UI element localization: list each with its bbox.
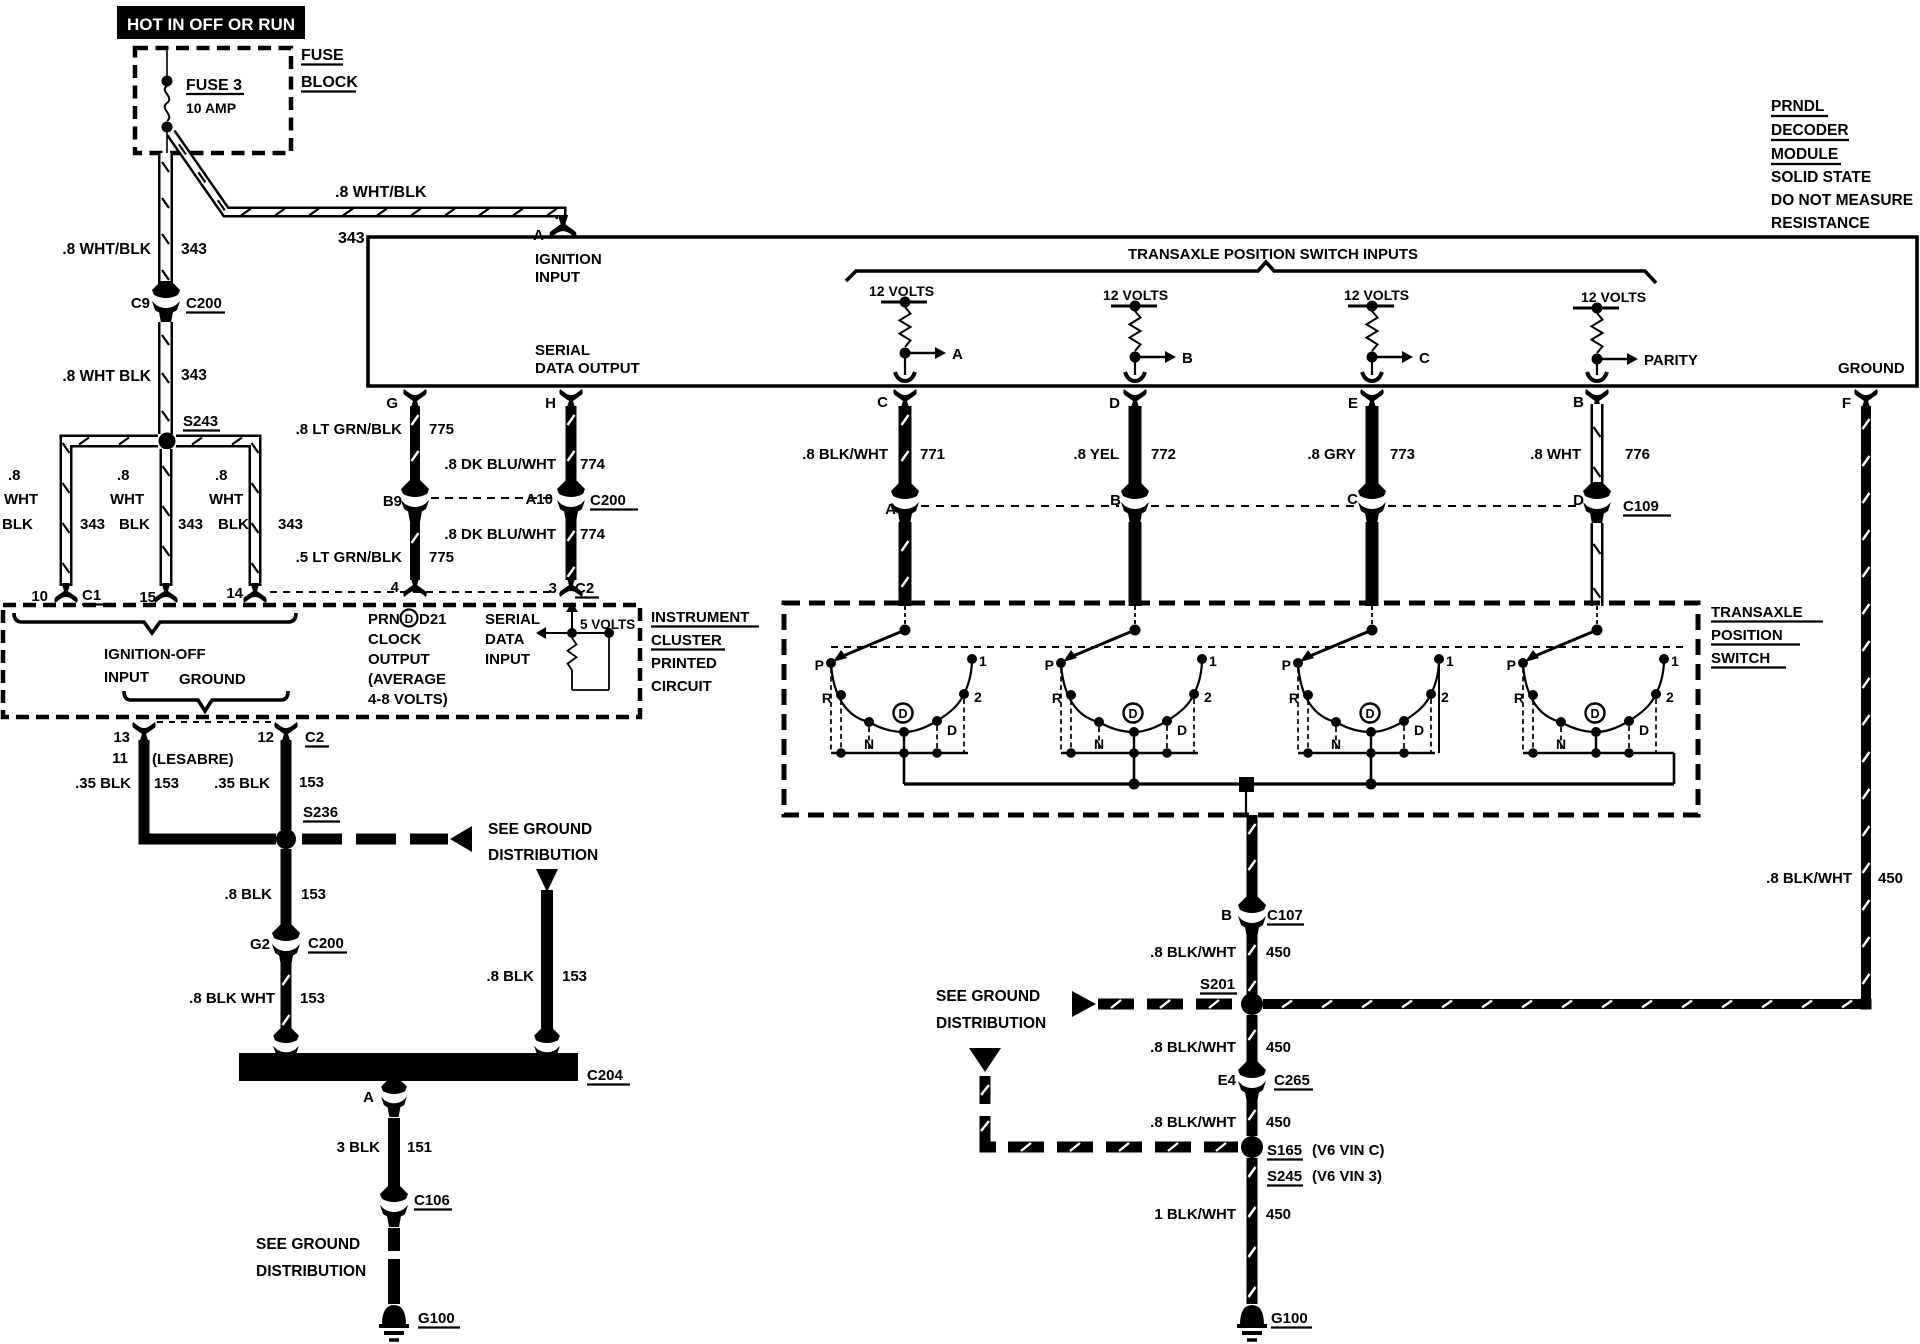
svg-text:SWITCH: SWITCH <box>1711 650 1770 667</box>
module pin H <box>545 389 583 412</box>
wire .8 WHT/BLK 343 S243 branch to cluster pin 10 <box>66 441 158 586</box>
label .8 BLK/WHT 450 (below S201) <box>1150 1039 1291 1056</box>
svg-text:(V6 VIN 3): (V6 VIN 3) <box>1312 1168 1382 1185</box>
svg-text:C1: C1 <box>82 587 101 604</box>
svg-text:3: 3 <box>549 580 557 597</box>
svg-text:IGNITION-OFF: IGNITION-OFF <box>104 646 206 663</box>
wire .8 BLK/WHT 450 C107 to S201 <box>1247 936 1258 994</box>
svg-text:.35 BLK: .35 BLK <box>75 775 131 792</box>
svg-text:10 AMP: 10 AMP <box>186 100 236 116</box>
svg-text:MODULE: MODULE <box>1771 146 1838 163</box>
svg-text:450: 450 <box>1266 1206 1291 1223</box>
wire .8 BLK/WHT 450 C265 to S165 <box>1247 1101 1258 1136</box>
svg-text:TRANSAXLE POSITION SWITCH INPU: TRANSAXLE POSITION SWITCH INPUTS <box>1128 246 1418 263</box>
svg-text:D: D <box>1414 722 1424 738</box>
svg-text:A: A <box>363 1089 374 1106</box>
transaxle position switch wafer 3 <box>1282 606 1454 784</box>
svg-text:2: 2 <box>1204 689 1212 705</box>
PRNDL decoder module box U1 <box>368 237 1917 386</box>
svg-text:PRN: PRN <box>368 611 400 628</box>
svg-text:INPUT: INPUT <box>104 669 149 686</box>
wire .8 BLK/WHT 450 S201 to C265 <box>1247 1015 1258 1063</box>
wire .8 BLK/WHT 450 pin F (ground) down and left to S201 <box>1263 406 1871 1009</box>
label 1 BLK/WHT 450 <box>1154 1206 1291 1223</box>
svg-text:DECODER: DECODER <box>1771 122 1849 139</box>
12 volts pull-up resistor branch PARITY <box>1573 289 1698 381</box>
connector C109 pin C <box>1347 482 1386 524</box>
svg-text:C109: C109 <box>1623 498 1659 515</box>
12 volts pull-up resistor branch C <box>1344 287 1430 381</box>
wire .8 YEL 772 connector B to transaxle switch <box>1129 522 1142 606</box>
svg-text:.8 WHT BLK: .8 WHT BLK <box>62 368 151 385</box>
wire .8 GRY 773 pin E to connector C <box>1366 406 1379 484</box>
svg-text:B: B <box>1573 394 1584 411</box>
mechanical link dashed line between switch wipers <box>831 646 1688 648</box>
svg-text:DISTRIBUTION: DISTRIBUTION <box>936 1015 1046 1032</box>
svg-text:775: 775 <box>429 421 454 438</box>
svg-text:.8 WHT/BLK: .8 WHT/BLK <box>335 184 427 201</box>
svg-text:343: 343 <box>181 241 207 258</box>
svg-text:TRANSAXLE: TRANSAXLE <box>1711 604 1803 621</box>
svg-text:SERIAL: SERIAL <box>535 342 590 359</box>
label .8 GRY 773 <box>1307 446 1415 463</box>
connector C109 pin B <box>1110 482 1149 524</box>
cluster pin 4 <box>391 577 427 597</box>
label TRANSAXLE POSITION SWITCH <box>1711 604 1823 668</box>
svg-text:IGNITION: IGNITION <box>535 251 602 268</box>
label INSTRUMENT CLUSTER PRINTED CIRCUIT <box>651 609 759 695</box>
wire .8 WHT/BLK 343 S243 branch to cluster pin 14 <box>176 441 255 586</box>
module pin A (ignition input) <box>533 215 576 244</box>
svg-text:D: D <box>405 612 414 626</box>
svg-text:B9: B9 <box>383 493 402 510</box>
transaxle position switch wafer 1 <box>815 606 987 784</box>
label SEE GROUND DISTRIBUTION (upper left) <box>488 821 598 864</box>
svg-text:.8 BLK: .8 BLK <box>224 886 272 903</box>
svg-text:POSITION: POSITION <box>1711 627 1783 644</box>
fuse block label FUSE BLOCK <box>301 47 358 92</box>
label .8 YEL 772 <box>1073 446 1176 463</box>
svg-text:S201: S201 <box>1200 976 1235 993</box>
label .8 LT GRN/BLK 775 <box>296 421 454 438</box>
svg-text:E4: E4 <box>1218 1072 1237 1089</box>
wire .8 BLK/WHT 771 connector A to transaxle switch <box>899 522 912 606</box>
wire .8 WHT/BLK 343 S243 to cluster pin 15 <box>160 449 173 586</box>
wire 3 BLK 151 C204 to C106 <box>388 1118 400 1186</box>
svg-text:CLOCK: CLOCK <box>368 631 421 648</box>
wire .8 BLK/WHT 771 pin C to connector A <box>899 406 912 484</box>
label .8 WHT/BLK 343 (upper left) <box>62 241 207 258</box>
labels .8 BLK 153 (right wire) <box>486 968 587 985</box>
connector C200 pin A10 <box>525 480 638 522</box>
svg-text:P: P <box>1507 657 1516 673</box>
svg-text:GROUND: GROUND <box>1838 360 1905 377</box>
label SEE GROUND DISTRIBUTION (bottom left) <box>256 1236 366 1280</box>
svg-text:SEE GROUND: SEE GROUND <box>936 988 1040 1005</box>
fuse FUSE 3 10 AMP <box>162 48 245 153</box>
labels .35 BLK 153 (pin 13) <box>75 775 179 792</box>
svg-text:RESISTANCE: RESISTANCE <box>1771 215 1870 232</box>
transaxle position switch wafer 2 <box>1045 606 1217 784</box>
label .8 DK BLU/WHT 774 (upper) <box>444 456 605 473</box>
svg-text:SOLID STATE: SOLID STATE <box>1771 169 1871 186</box>
svg-text:.8 LT GRN/BLK: .8 LT GRN/BLK <box>296 421 403 438</box>
cluster pin 13 <box>113 722 155 746</box>
connector C265 pin E4 <box>1218 1061 1313 1103</box>
svg-text:D: D <box>898 707 907 721</box>
5 volts pull-up network in cluster <box>536 602 635 690</box>
svg-text:343: 343 <box>338 230 365 247</box>
svg-text:1: 1 <box>1209 653 1217 669</box>
svg-text:C106: C106 <box>414 1192 450 1209</box>
svg-text:.35 BLK: .35 BLK <box>214 775 270 792</box>
wire .8 BLK/WHT 450 switch output to C107 <box>1247 815 1258 898</box>
cluster pin 12 / C2 <box>257 722 329 747</box>
svg-text:C2: C2 <box>575 580 594 597</box>
svg-text:4-8 VOLTS): 4-8 VOLTS) <box>368 691 448 708</box>
svg-text:153: 153 <box>300 990 325 1007</box>
svg-text:D: D <box>1639 722 1649 738</box>
switch common output bus <box>904 777 1674 815</box>
module pin B <box>1573 389 1609 411</box>
splice S201 <box>1200 976 1263 1015</box>
svg-text:C2: C2 <box>305 729 324 746</box>
svg-text:4: 4 <box>391 579 400 596</box>
svg-text:DO NOT MEASURE: DO NOT MEASURE <box>1771 192 1913 209</box>
svg-text:1: 1 <box>1446 653 1454 669</box>
svg-text:.5 LT GRN/BLK: .5 LT GRN/BLK <box>296 549 403 566</box>
wire .8 WHT/BLK 343 C9 to S243 <box>158 322 173 434</box>
svg-text:153: 153 <box>154 775 179 792</box>
svg-text:3 BLK: 3 BLK <box>337 1139 381 1156</box>
svg-text:772: 772 <box>1151 446 1176 463</box>
connector C204 pin A <box>363 1078 407 1117</box>
svg-text:B: B <box>1110 492 1121 509</box>
svg-text:P: P <box>1045 657 1054 673</box>
wire .8 WHT/BLK 343 fuse to PRNDL module pin A <box>171 133 561 219</box>
svg-text:SEE GROUND: SEE GROUND <box>488 821 592 838</box>
svg-text:.8 GRY: .8 GRY <box>1307 446 1356 463</box>
svg-text:.8 BLK WHT: .8 BLK WHT <box>189 990 275 1007</box>
svg-text:C200: C200 <box>186 295 222 312</box>
svg-text:.8 DK BLU/WHT: .8 DK BLU/WHT <box>444 456 556 473</box>
svg-text:G100: G100 <box>418 1310 455 1327</box>
label .8 BLK/WHT 450 (above S201) <box>1150 944 1291 961</box>
label SERIAL DATA INPUT <box>485 611 540 668</box>
svg-text:C200: C200 <box>590 492 626 509</box>
svg-text:S236: S236 <box>303 804 338 821</box>
label .8 DK BLU/WHT 774 (lower) <box>444 526 605 543</box>
labels .35 BLK 153 (pin 12) <box>214 774 324 792</box>
connector C200 pin C9 <box>131 281 225 323</box>
svg-text:450: 450 <box>1878 870 1903 887</box>
labels .8 BLK 153 (S236 to G2) <box>224 886 326 903</box>
transaxle position switch wafer 4 <box>1507 606 1679 784</box>
svg-text:343: 343 <box>278 516 303 533</box>
wire 1 BLK/WHT 450 S165 to G100 <box>1247 1158 1258 1304</box>
svg-text:DATA OUTPUT: DATA OUTPUT <box>535 360 640 377</box>
header label HOT IN OFF OR RUN <box>117 6 305 39</box>
brace ground <box>124 691 288 711</box>
svg-text:776: 776 <box>1625 446 1650 463</box>
svg-text:D: D <box>1365 707 1374 721</box>
svg-text:G: G <box>386 395 398 412</box>
fuse block (dashed box) <box>135 48 291 153</box>
dashed connector line C200 between B9 and A10 <box>431 497 555 499</box>
svg-text:D: D <box>1128 707 1137 721</box>
label PRNDL DECODER MODULE SOLID STATE DO NOT MEASURE RESISTANCE <box>1771 98 1913 232</box>
svg-text:BLOCK: BLOCK <box>301 74 358 91</box>
brace ignition-off input <box>14 613 296 633</box>
cluster pin 14 <box>226 583 266 603</box>
svg-text:A: A <box>952 346 963 363</box>
svg-text:G100: G100 <box>1271 1310 1308 1327</box>
wire .8 YEL 772 pin D to connector B <box>1129 406 1142 484</box>
12 volts pull-up resistor branch A <box>869 283 963 381</box>
svg-text:DISTRIBUTION: DISTRIBUTION <box>488 847 598 864</box>
svg-text:2: 2 <box>1441 689 1449 705</box>
svg-text:GROUND: GROUND <box>179 671 246 688</box>
svg-text:151: 151 <box>407 1139 432 1156</box>
svg-text:12 VOLTS: 12 VOLTS <box>1581 289 1646 305</box>
svg-text:.8 BLK/WHT: .8 BLK/WHT <box>802 446 888 463</box>
label PRNDL clock output <box>368 610 448 709</box>
connector C107 pin B <box>1221 896 1304 938</box>
svg-text:INSTRUMENT: INSTRUMENT <box>651 609 749 626</box>
label .8 WHT/BLK 343 (mid left) <box>62 367 207 385</box>
svg-text:PRNDL: PRNDL <box>1771 98 1824 115</box>
label .8 BLK/WHT 450 (right) <box>1766 870 1903 887</box>
svg-text:10: 10 <box>31 588 48 605</box>
dashed wire S201 to ground distribution (left) <box>1072 991 1232 1017</box>
svg-text:DISTRIBUTION: DISTRIBUTION <box>256 1263 366 1280</box>
svg-text:.8 BLK/WHT: .8 BLK/WHT <box>1766 870 1852 887</box>
wire .8 DK BLU/WHT 774 A10 to cluster pin 3 <box>566 520 577 580</box>
svg-text:SEE GROUND: SEE GROUND <box>256 1236 360 1253</box>
wire .8 WHT 776 connector D to transaxle switch <box>1591 523 1604 606</box>
svg-text:B: B <box>1221 907 1232 924</box>
splice S165 / S245 <box>1241 1136 1385 1186</box>
svg-text:.8: .8 <box>117 467 130 484</box>
svg-text:C: C <box>1419 350 1430 367</box>
connector C106 <box>380 1185 452 1227</box>
svg-text:.8 BLK/WHT: .8 BLK/WHT <box>1150 944 1236 961</box>
dashed wire S236 to ground distribution <box>302 826 472 852</box>
svg-text:12 VOLTS: 12 VOLTS <box>1344 287 1409 303</box>
svg-text:F: F <box>1842 395 1851 412</box>
svg-text:(AVERAGE: (AVERAGE <box>368 671 446 688</box>
label .8 WHT 776 <box>1530 446 1650 463</box>
connector C109 pin A <box>885 482 919 524</box>
label .5 LT GRN/BLK 775 <box>296 549 454 566</box>
svg-text:PRINTED: PRINTED <box>651 655 717 672</box>
svg-text:C265: C265 <box>1274 1072 1310 1089</box>
svg-text:12 VOLTS: 12 VOLTS <box>869 283 934 299</box>
connector C204 bar <box>239 1053 630 1085</box>
12 volts pull-up resistor branch B <box>1103 287 1193 381</box>
svg-text:343: 343 <box>181 367 207 384</box>
cluster pin 10 / C1 <box>31 583 106 605</box>
svg-text:1: 1 <box>1671 653 1679 669</box>
connector C109 pin D <box>1573 482 1671 524</box>
svg-text:450: 450 <box>1266 1039 1291 1056</box>
svg-text:BLK: BLK <box>2 516 33 533</box>
connector C200 pin B9 <box>383 480 429 522</box>
cluster pin 15 <box>139 583 177 606</box>
svg-text:DATA: DATA <box>485 631 525 648</box>
label .8 BLK/WHT 450 (above S165) <box>1150 1114 1291 1131</box>
brace over transaxle position switch inputs <box>846 262 1656 283</box>
svg-text:BLK: BLK <box>119 516 150 533</box>
svg-text:INPUT: INPUT <box>485 651 530 668</box>
splice S243 <box>159 413 221 450</box>
connector C200 pin G2 <box>250 924 347 966</box>
label 11 (LESABRE) <box>112 750 234 768</box>
svg-text:C107: C107 <box>1267 907 1303 924</box>
svg-text:FUSE: FUSE <box>301 47 344 64</box>
svg-text:HOT IN OFF OR RUN: HOT IN OFF OR RUN <box>127 15 295 34</box>
labels .8 WHT BLK 343 (three branches) <box>2 467 303 533</box>
label SERIAL DATA OUTPUT <box>535 342 640 377</box>
svg-text:C9: C9 <box>131 295 150 312</box>
labels .8 BLK WHT 153 <box>189 990 325 1007</box>
svg-text:.8 DK BLU/WHT: .8 DK BLU/WHT <box>444 526 556 543</box>
svg-text:153: 153 <box>301 886 326 903</box>
wire .8 BLK 153 S236 to G2 <box>281 849 292 926</box>
svg-text:A10: A10 <box>525 491 553 508</box>
module pin F <box>1842 389 1878 412</box>
svg-text:343: 343 <box>80 516 105 533</box>
svg-text:(LESABRE): (LESABRE) <box>152 751 234 768</box>
svg-text:.8 YEL: .8 YEL <box>1073 446 1119 463</box>
svg-text:13: 13 <box>113 729 130 746</box>
svg-text:C200: C200 <box>308 935 344 952</box>
dashed wire S165 to ground distribution (left, with down arrow) <box>969 1048 1238 1151</box>
svg-text:775: 775 <box>429 549 454 566</box>
svg-text:14: 14 <box>226 585 243 602</box>
module pin E <box>1348 389 1384 412</box>
svg-text:A: A <box>533 227 544 244</box>
dashed connector line C109 A-B-C-D <box>921 505 1581 507</box>
svg-text:.8 WHT/BLK: .8 WHT/BLK <box>62 241 151 258</box>
wire .35 BLK 153 pin 13 to S236 <box>144 740 276 839</box>
wire .8 WHT/BLK 343 fuse to C9 <box>162 153 169 284</box>
svg-text:BLK: BLK <box>218 516 249 533</box>
svg-text:P: P <box>815 657 824 673</box>
svg-text:S165: S165 <box>1267 1142 1302 1159</box>
svg-text:153: 153 <box>562 968 587 985</box>
labels 3 BLK 151 <box>337 1139 432 1156</box>
svg-text:D: D <box>1177 722 1187 738</box>
svg-text:WHT: WHT <box>4 491 38 508</box>
dashed connector line C1/C2 along cluster pins <box>270 591 556 593</box>
svg-text:.8 BLK/WHT: .8 BLK/WHT <box>1150 1039 1236 1056</box>
svg-text:B: B <box>1182 350 1193 367</box>
svg-text:FUSE 3: FUSE 3 <box>186 77 242 94</box>
svg-text:C: C <box>877 394 888 411</box>
svg-text:WHT: WHT <box>209 491 243 508</box>
svg-text:H: H <box>545 395 556 412</box>
module pin D <box>1109 389 1147 412</box>
svg-text:D: D <box>1590 707 1599 721</box>
svg-text:INPUT: INPUT <box>535 269 580 286</box>
svg-text:.8: .8 <box>8 467 21 484</box>
wire BLK C106 toward G100 (see ground distribution) <box>388 1228 400 1304</box>
svg-text:11: 11 <box>112 750 128 767</box>
svg-text:2: 2 <box>1666 689 1674 705</box>
wire .35 BLK 153 pin 12 to S236 <box>281 740 292 830</box>
svg-text:PARITY: PARITY <box>1644 352 1698 369</box>
svg-text:1 BLK/WHT: 1 BLK/WHT <box>1154 1206 1236 1223</box>
instrument cluster printed circuit box (dashed) <box>3 605 640 717</box>
wire from ground distribution to C204 (.8 BLK 153) with down arrow <box>536 869 558 1030</box>
wire .8 BLK/WHT 153 G2 to C204 <box>281 964 292 1032</box>
svg-text:1: 1 <box>979 653 987 669</box>
dashed connector line C2 between pins 13 and 12 <box>157 721 274 723</box>
svg-text:774: 774 <box>580 456 606 473</box>
svg-text:2: 2 <box>974 689 982 705</box>
ground G100 (right) <box>1237 1306 1312 1340</box>
svg-text:D: D <box>1109 395 1120 412</box>
module pin C <box>877 389 917 411</box>
cluster pin 3 and C2 label <box>549 577 599 598</box>
svg-text:WHT: WHT <box>110 491 144 508</box>
svg-text:773: 773 <box>1390 446 1415 463</box>
svg-text:5 VOLTS: 5 VOLTS <box>580 617 635 632</box>
svg-text:OUTPUT: OUTPUT <box>368 651 430 668</box>
wire .8 WHT 776 pin B to connector D <box>1591 404 1604 483</box>
svg-text:D21: D21 <box>419 611 447 628</box>
svg-text:.8 WHT: .8 WHT <box>1530 446 1581 463</box>
svg-text:CLUSTER: CLUSTER <box>651 632 722 649</box>
svg-text:P: P <box>1282 657 1291 673</box>
label SEE GROUND DISTRIBUTION (middle) <box>936 988 1046 1032</box>
wire .8 GRY 773 connector C to transaxle switch <box>1366 522 1379 606</box>
svg-text:450: 450 <box>1266 944 1291 961</box>
svg-text:E: E <box>1348 395 1358 412</box>
wire .8 DK BLU/WHT 774 pin H to A10 <box>566 406 577 482</box>
svg-text:S245: S245 <box>1267 1168 1302 1185</box>
label .8 BLK/WHT 771 <box>802 446 945 463</box>
module pin G <box>386 389 426 412</box>
connector symbols above C204 <box>273 1027 560 1066</box>
svg-text:S243: S243 <box>183 413 218 430</box>
svg-text:153: 153 <box>299 774 324 791</box>
svg-text:G2: G2 <box>250 936 270 953</box>
svg-text:.8 BLK/WHT: .8 BLK/WHT <box>1150 1114 1236 1131</box>
transaxle position switch box (dashed) <box>784 603 1698 815</box>
label IGNITION INPUT <box>535 251 602 286</box>
svg-text:D: D <box>947 722 957 738</box>
svg-text:12: 12 <box>257 729 274 746</box>
svg-text:.8 BLK: .8 BLK <box>486 968 534 985</box>
wire .8 LT GRN/BLK 775 pin G to B9 <box>410 406 420 482</box>
splice S236 <box>276 804 340 849</box>
svg-text:774: 774 <box>580 526 606 543</box>
svg-text:C204: C204 <box>587 1067 624 1084</box>
label IGNITION-OFF INPUT <box>104 646 206 686</box>
svg-text:.8: .8 <box>215 467 228 484</box>
wire .5 LT GRN/BLK 775 B9 to cluster pin 4 <box>410 520 420 580</box>
svg-text:(V6 VIN C): (V6 VIN C) <box>1312 1142 1385 1159</box>
svg-text:343: 343 <box>178 516 203 533</box>
ground G100 (left) <box>379 1306 460 1340</box>
svg-text:CIRCUIT: CIRCUIT <box>651 678 712 695</box>
svg-text:771: 771 <box>920 446 945 463</box>
svg-text:SERIAL: SERIAL <box>485 611 540 628</box>
svg-text:A: A <box>885 501 896 518</box>
svg-text:450: 450 <box>1266 1114 1291 1131</box>
